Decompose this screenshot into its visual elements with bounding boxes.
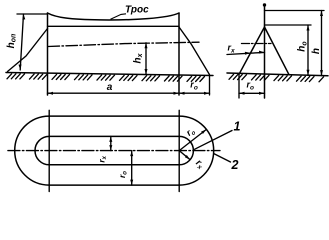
svg-text:Трос: Трос — [125, 5, 149, 16]
svg-text:2: 2 — [231, 158, 239, 172]
svg-text:h: h — [311, 48, 322, 54]
svg-text:a: a — [107, 82, 113, 93]
svg-text:1: 1 — [234, 120, 241, 134]
